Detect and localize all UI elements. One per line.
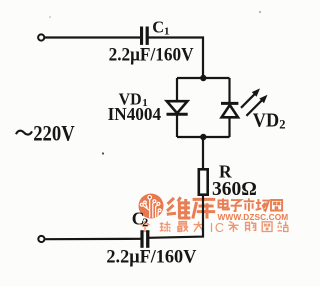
svg-text:360Ω: 360Ω	[212, 179, 257, 200]
svg-text:2.2μF/160V: 2.2μF/160V	[109, 44, 194, 65]
svg-text:IC: IC	[210, 221, 226, 235]
svg-text:WWW.DZSC.COM: WWW.DZSC.COM	[218, 212, 289, 222]
svg-text:220V: 220V	[33, 120, 75, 145]
svg-text:2: 2	[279, 118, 285, 132]
svg-text:VD: VD	[253, 110, 279, 131]
svg-text:IN4004: IN4004	[108, 104, 162, 124]
svg-text:1: 1	[164, 26, 170, 38]
svg-text:C: C	[152, 18, 164, 37]
svg-text:2: 2	[142, 215, 148, 229]
svg-text:2.2μF/160V: 2.2μF/160V	[106, 246, 196, 267]
